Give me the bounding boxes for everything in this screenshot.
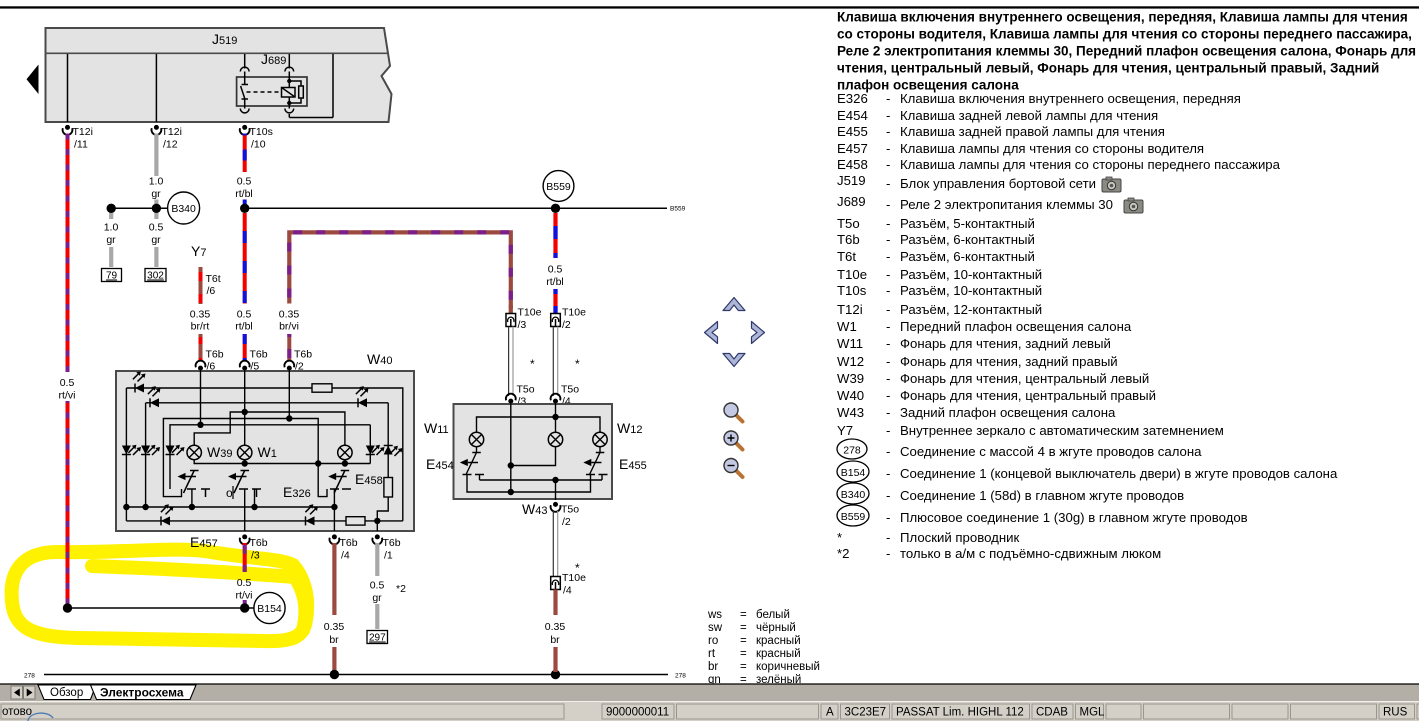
svg-text:-: -: [886, 124, 890, 139]
svg-text:-: -: [886, 283, 890, 298]
svg-text:rt/bl: rt/bl: [546, 276, 564, 288]
svg-text:/2: /2: [562, 516, 571, 528]
svg-text:Разъём, 6-контактный: Разъём, 6-контактный: [900, 232, 1035, 247]
svg-text:красный: красный: [756, 648, 801, 660]
svg-text:T6b: T6b: [250, 537, 268, 549]
svg-text:T12i: T12i: [73, 126, 93, 138]
svg-text:Соединение 1 (концевой выключа: Соединение 1 (концевой выключатель двери…: [900, 466, 1338, 481]
svg-text:со стороны водителя, Клавиша л: со стороны водителя, Клавиша лампы для ч…: [837, 27, 1412, 42]
svg-text:br: br: [708, 661, 718, 673]
svg-text:/3: /3: [251, 550, 260, 562]
svg-text:-: -: [886, 232, 890, 247]
svg-text:Реле 2 электропитания клеммы 3: Реле 2 электропитания клеммы 30: [900, 197, 1113, 212]
svg-text:Клавиша задней левой лампы для: Клавиша задней левой лампы для чтения: [900, 108, 1158, 123]
svg-text:Соединение с массой 4 в жгуте: Соединение с массой 4 в жгуте проводов с…: [900, 444, 1202, 459]
svg-text:Клавиша включения внутреннего: Клавиша включения внутреннего освещения,…: [837, 10, 1408, 25]
svg-text:Разъём, 5-контактный: Разъём, 5-контактный: [900, 216, 1035, 231]
svg-text:T5o: T5o: [561, 384, 579, 396]
svg-text:чёрный: чёрный: [756, 622, 796, 634]
svg-text:T12i: T12i: [837, 302, 863, 317]
svg-text:Задний плафон освещения салона: Задний плафон освещения салона: [900, 405, 1116, 420]
svg-text:278: 278: [24, 673, 35, 680]
svg-text:RUS: RUS: [1383, 707, 1408, 719]
svg-text:-: -: [886, 197, 890, 212]
svg-text:Разъём, 10-контактный: Разъём, 10-контактный: [900, 267, 1042, 282]
svg-text:9000000011: 9000000011: [606, 707, 669, 719]
svg-text:/4: /4: [341, 550, 350, 562]
svg-text:-: -: [886, 108, 890, 123]
svg-text:Разъём, 10-контактный: Разъём, 10-контактный: [900, 283, 1042, 298]
svg-text:sw: sw: [708, 622, 723, 634]
svg-text:rt: rt: [708, 648, 716, 660]
svg-text:0.5: 0.5: [370, 580, 385, 592]
svg-text:Передний плафон освещения сало: Передний плафон освещения салона: [900, 319, 1132, 334]
svg-text:ro: ro: [708, 635, 718, 647]
svg-text:gr: gr: [372, 592, 382, 604]
svg-text:0.5: 0.5: [60, 377, 75, 389]
svg-text:-: -: [886, 354, 890, 369]
svg-text:1.0: 1.0: [104, 222, 119, 234]
svg-text:W12: W12: [617, 420, 642, 436]
svg-text:79: 79: [106, 271, 118, 282]
svg-text:Клавиша лампы для чтения со ст: Клавиша лампы для чтения со стороны пере…: [900, 157, 1281, 172]
svg-text:278: 278: [675, 673, 686, 680]
svg-text:/4: /4: [563, 585, 572, 597]
svg-text:br/vi: br/vi: [279, 321, 299, 333]
svg-text:MGL: MGL: [1080, 707, 1106, 719]
svg-text:Реле 2 электропитания клеммы 3: Реле 2 электропитания клеммы 30, Передни…: [837, 44, 1416, 59]
svg-text:0.5: 0.5: [237, 176, 252, 188]
svg-text:Фонарь для чтения, задний прав: Фонарь для чтения, задний правый: [900, 354, 1118, 369]
svg-text:/11: /11: [74, 139, 88, 151]
svg-text:-: -: [886, 216, 890, 231]
svg-text:o: o: [226, 486, 233, 500]
svg-text:W40: W40: [837, 388, 864, 403]
svg-text:Обзор: Обзор: [50, 687, 83, 699]
svg-text:297: 297: [369, 633, 386, 644]
svg-text:W1: W1: [837, 319, 857, 334]
svg-text:E455: E455: [837, 124, 868, 139]
svg-text:-: -: [886, 336, 890, 351]
svg-text:T6b: T6b: [206, 349, 224, 361]
svg-text:0.5: 0.5: [548, 264, 563, 276]
svg-text:B559: B559: [670, 206, 686, 213]
svg-text:0.35: 0.35: [324, 621, 345, 633]
svg-text:T6b: T6b: [383, 537, 401, 549]
svg-text:0.5: 0.5: [237, 309, 252, 321]
svg-text:rt/vi: rt/vi: [236, 590, 253, 602]
svg-text:-: -: [886, 249, 890, 264]
svg-text:T6b: T6b: [250, 349, 268, 361]
svg-text:=: =: [740, 635, 747, 647]
svg-text:-: -: [886, 157, 890, 172]
svg-text:T10e: T10e: [518, 307, 542, 319]
svg-text:T6b: T6b: [340, 537, 358, 549]
svg-text:T10e: T10e: [837, 267, 867, 282]
svg-text:W39: W39: [837, 371, 864, 386]
svg-text:-: -: [886, 267, 890, 282]
svg-text:B154: B154: [841, 467, 866, 479]
svg-text:T10s: T10s: [250, 126, 273, 138]
svg-text:/10: /10: [251, 139, 266, 151]
svg-text:302: 302: [147, 271, 164, 282]
svg-text:0.5: 0.5: [237, 577, 252, 589]
svg-text:-: -: [886, 319, 890, 334]
svg-text:W11: W11: [837, 336, 863, 351]
svg-text:Внутреннее зеркало с автоматич: Внутреннее зеркало с автоматическим зате…: [900, 423, 1224, 438]
svg-text:J689: J689: [837, 194, 866, 209]
svg-text:rt/bl: rt/bl: [235, 188, 253, 200]
svg-text:br/rt: br/rt: [191, 321, 210, 333]
svg-text:красный: красный: [756, 635, 801, 647]
svg-text:-: -: [886, 91, 890, 106]
svg-text:-: -: [886, 466, 890, 481]
svg-text:gr: gr: [106, 234, 116, 246]
svg-text:Разъём, 6-контактный: Разъём, 6-контактный: [900, 249, 1035, 264]
svg-text:-: -: [886, 444, 890, 459]
svg-text:T5o: T5o: [561, 504, 579, 516]
svg-text:Фонарь для чтения, центральный: Фонарь для чтения, центральный левый: [900, 371, 1149, 386]
svg-text:/2: /2: [562, 319, 571, 331]
svg-text:T6b: T6b: [294, 349, 312, 361]
svg-text:W40: W40: [367, 351, 392, 367]
svg-text:B559: B559: [546, 181, 571, 193]
svg-text:Плюсовое соединение 1 (30g) в: Плюсовое соединение 1 (30g) в главном жг…: [900, 510, 1248, 525]
svg-text:278: 278: [843, 445, 861, 457]
svg-text:T5o: T5o: [517, 384, 535, 396]
svg-text:*2: *2: [837, 546, 849, 561]
svg-text:B154: B154: [257, 603, 282, 615]
svg-text:/12: /12: [163, 139, 178, 151]
svg-text:B340: B340: [841, 489, 866, 501]
svg-text:/1: /1: [384, 550, 393, 562]
svg-text:3C23E7: 3C23E7: [845, 707, 887, 719]
svg-text:T6t: T6t: [837, 249, 856, 264]
svg-text:-: -: [886, 371, 890, 386]
svg-text:-: -: [886, 530, 890, 545]
svg-text:белый: белый: [756, 609, 790, 621]
svg-text:Y7: Y7: [837, 423, 853, 438]
svg-text:E454: E454: [426, 456, 454, 472]
svg-text:-: -: [886, 510, 890, 525]
svg-text:br: br: [329, 634, 339, 646]
svg-text:Соединение 1 (58d) в главном ж: Соединение 1 (58d) в главном жгуте прово…: [900, 488, 1184, 503]
svg-text:-: -: [886, 423, 890, 438]
svg-text:0.35: 0.35: [545, 621, 566, 633]
svg-text:rt/vi: rt/vi: [59, 390, 76, 402]
svg-text:ws: ws: [707, 609, 722, 621]
svg-text:CDAB: CDAB: [1036, 707, 1068, 719]
svg-text:-: -: [886, 388, 890, 403]
svg-text:0.35: 0.35: [190, 309, 211, 321]
svg-text:W43: W43: [522, 501, 547, 517]
svg-text:Y7: Y7: [191, 243, 206, 259]
svg-text:Разъём, 12-контактный: Разъём, 12-контактный: [900, 302, 1042, 317]
svg-text:T5o: T5o: [837, 216, 860, 231]
svg-text:Плоский проводник: Плоский проводник: [900, 530, 1019, 545]
svg-text:1.0: 1.0: [149, 176, 164, 188]
svg-text:чтения, центральный левый, Фон: чтения, центральный левый, Фонарь для чт…: [837, 61, 1379, 76]
svg-text:-: -: [886, 176, 890, 191]
svg-text:E326: E326: [837, 91, 868, 106]
svg-text:*2: *2: [396, 583, 406, 595]
svg-text:E457: E457: [837, 141, 868, 156]
svg-text:-: -: [886, 546, 890, 561]
svg-text:=: =: [740, 661, 747, 673]
svg-text:T6b: T6b: [837, 232, 860, 247]
svg-text:rt/bl: rt/bl: [235, 321, 253, 333]
svg-text:E457: E457: [190, 534, 218, 550]
svg-text:Фонарь для чтения, центральный: Фонарь для чтения, центральный правый: [900, 388, 1156, 403]
svg-text:T10s: T10s: [837, 283, 867, 298]
svg-text:Фонарь для чтения, задний левы: Фонарь для чтения, задний левый: [900, 336, 1111, 351]
svg-text:=: =: [740, 648, 747, 660]
svg-text:коричневый: коричневый: [756, 661, 820, 673]
svg-text:=: =: [740, 609, 747, 621]
svg-text:-: -: [886, 141, 890, 156]
svg-text:/3: /3: [518, 319, 527, 331]
svg-text:W12: W12: [837, 354, 864, 369]
svg-text:Клавиша задней правой лампы дл: Клавиша задней правой лампы для чтения: [900, 124, 1165, 139]
svg-text:B340: B340: [171, 203, 196, 215]
svg-text:E455: E455: [619, 456, 647, 472]
svg-text:-: -: [886, 488, 890, 503]
svg-text:gr: gr: [151, 234, 161, 246]
svg-text:*: *: [530, 357, 535, 371]
svg-text:E458: E458: [837, 157, 868, 172]
svg-text:T12i: T12i: [162, 126, 182, 138]
svg-text:*: *: [837, 530, 842, 545]
svg-text:Клавиша включения внутреннего: Клавиша включения внутреннего освещения,…: [900, 91, 1241, 106]
svg-text:0.35: 0.35: [279, 309, 300, 321]
svg-text:Клавиша лампы для чтения со ст: Клавиша лампы для чтения со стороны води…: [900, 141, 1204, 156]
svg-text:gr: gr: [151, 188, 161, 200]
svg-text:-: -: [886, 405, 890, 420]
svg-text:E454: E454: [837, 108, 868, 123]
svg-text:отово: отово: [2, 706, 32, 718]
svg-text:T10e: T10e: [562, 572, 586, 584]
svg-text:A: A: [826, 707, 834, 719]
svg-text:br: br: [550, 634, 560, 646]
svg-text:T10e: T10e: [562, 307, 586, 319]
svg-text:W11: W11: [424, 420, 449, 436]
svg-text:/6: /6: [207, 285, 216, 297]
svg-text:=: =: [740, 622, 747, 634]
svg-text:*: *: [575, 357, 580, 371]
svg-text:Электросхема: Электросхема: [100, 686, 184, 700]
svg-text:только в а/м с подъёмно-сдвижн: только в а/м с подъёмно-сдвижным люком: [900, 546, 1161, 561]
svg-text:W43: W43: [837, 405, 864, 420]
svg-text:J519: J519: [837, 173, 866, 188]
svg-text:0.5: 0.5: [149, 222, 164, 234]
svg-text:PASSAT Lim. HIGHL 112: PASSAT Lim. HIGHL 112: [896, 707, 1024, 719]
svg-text:-: -: [886, 302, 890, 317]
svg-text:B559: B559: [841, 511, 866, 523]
svg-text:T6t: T6t: [206, 273, 221, 285]
svg-text:Блок управления бортовой сети: Блок управления бортовой сети: [900, 176, 1096, 191]
